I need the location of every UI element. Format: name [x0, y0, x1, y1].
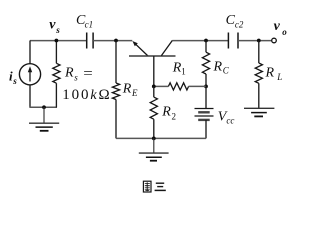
label Rs = 100kOhm [62, 66, 111, 103]
svg-text:cc: cc [226, 115, 234, 125]
svg-text:R: R [122, 81, 132, 96]
wire battery top lead [205, 86, 207, 108]
transistor Q1 (emitter arrow) [132, 41, 148, 56]
svg-text:v: v [274, 19, 281, 34]
svg-text:2: 2 [172, 112, 177, 122]
wire bottom bus [116, 137, 206, 139]
svg-text:E: E [131, 88, 138, 98]
node vs junction dot [55, 39, 59, 43]
svg-text:c1: c1 [85, 20, 94, 30]
junction dot emitter node [114, 39, 118, 43]
svg-text:R: R [172, 60, 182, 75]
capacitor Cc2 [228, 33, 238, 49]
svg-text:o: o [282, 27, 287, 37]
resistor RL [255, 41, 262, 109]
ground (output) [244, 108, 274, 116]
battery Vcc [195, 109, 214, 120]
junction dot base node [152, 85, 156, 89]
wire left branch down to current source [29, 41, 31, 64]
wire bottom of input loop [29, 106, 57, 108]
junction dot collector node [204, 39, 208, 43]
svg-text:1: 1 [181, 67, 186, 77]
wire below current source [29, 85, 31, 107]
junction dot ground tap input loop [42, 105, 46, 109]
svg-text:=: = [83, 67, 93, 82]
current source Is [19, 64, 40, 85]
svg-text:R: R [161, 104, 171, 119]
svg-text:R: R [265, 65, 275, 80]
wire battery bottom lead [205, 120, 207, 138]
resistor R2 [150, 86, 157, 138]
ground (bus) [139, 138, 169, 160]
wire Cc2 to output [238, 40, 272, 42]
wire top rail left: vs node to Cc1 [30, 40, 87, 42]
svg-text:s: s [12, 76, 17, 86]
svg-text:R: R [64, 66, 74, 81]
transistor Q1 collector lead [161, 40, 172, 55]
caption figure 3 (drawn CJK) [143, 181, 165, 192]
svg-text:100kΩ: 100kΩ [62, 87, 111, 103]
resistor RE [112, 41, 119, 139]
svg-text:R: R [213, 59, 223, 74]
svg-text:C: C [223, 65, 230, 75]
terminal vo (open circle) [272, 38, 277, 43]
svg-text:s: s [74, 72, 78, 82]
transistor Q1 base bar [129, 55, 176, 57]
svg-text:s: s [55, 25, 60, 35]
resistor RC [202, 41, 209, 87]
wire base lead down [153, 56, 155, 86]
resistor Rs [53, 41, 60, 108]
wire Cc1 to emitter node [93, 40, 132, 42]
ground (input loop) [29, 107, 59, 131]
svg-text:c2: c2 [235, 20, 244, 30]
junction dot RC bottom / R1 / battery [204, 85, 208, 89]
resistor R1 [154, 83, 206, 90]
junction dot bus ground tap [152, 137, 156, 141]
capacitor Cc1 [87, 33, 93, 49]
junction dot output node [257, 39, 261, 43]
svg-text:L: L [276, 72, 282, 82]
wire collector rail to Cc2 [172, 40, 228, 42]
